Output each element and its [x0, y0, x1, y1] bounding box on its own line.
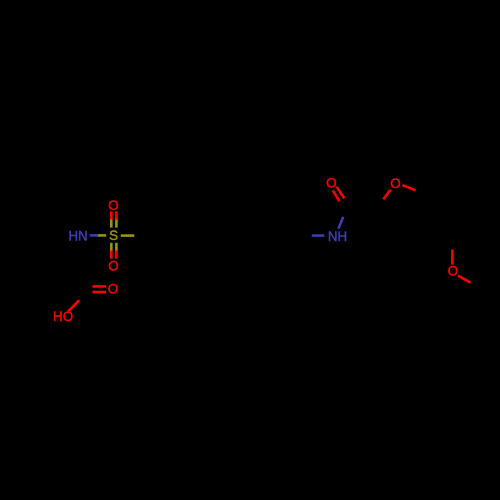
svg-text:S: S	[109, 228, 118, 243]
svg-text:O: O	[108, 259, 118, 274]
svg-text:NH: NH	[328, 229, 347, 244]
svg-text:O: O	[108, 198, 118, 213]
svg-text:HO: HO	[53, 309, 73, 324]
svg-text:O: O	[108, 282, 118, 297]
svg-text:O: O	[326, 175, 336, 190]
svg-text:O: O	[448, 264, 458, 279]
svg-text:HN: HN	[68, 228, 87, 243]
svg-text:O: O	[390, 176, 400, 191]
